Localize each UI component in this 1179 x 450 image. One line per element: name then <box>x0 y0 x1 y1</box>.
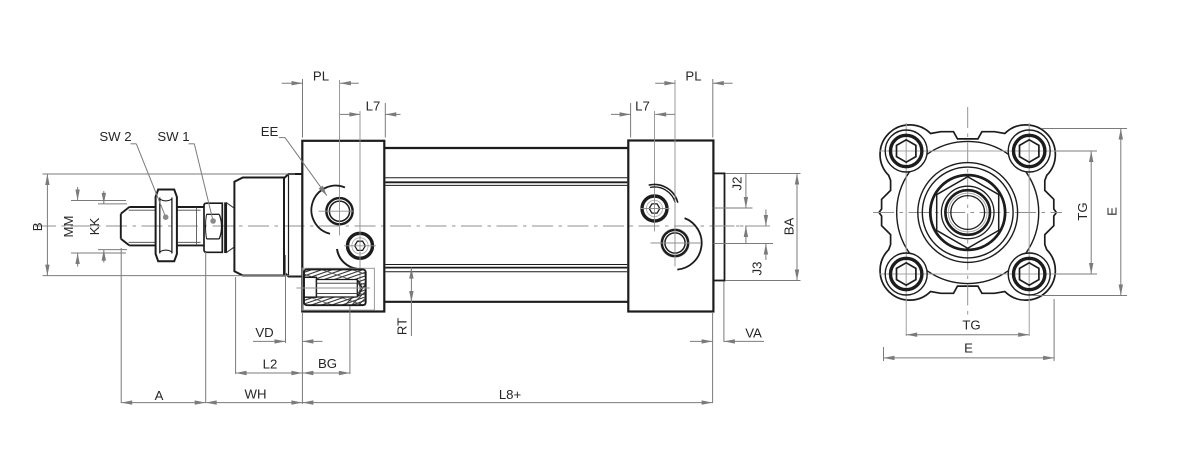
left screw arc <box>337 249 357 269</box>
ext line rod tip <box>120 248 122 403</box>
rod flats SW1 <box>204 203 222 252</box>
svg-text:MM: MM <box>61 216 76 238</box>
svg-text:BG: BG <box>318 356 337 371</box>
right cushion screw ring <box>642 196 667 221</box>
left cushion screw ring <box>348 233 373 258</box>
left port crosshair <box>319 80 354 236</box>
svg-text:TG: TG <box>1075 202 1090 220</box>
ext lines B <box>43 174 296 276</box>
rod circles (end view) <box>941 186 994 239</box>
svg-text:VA: VA <box>745 326 762 341</box>
label SW 1 with leader <box>157 129 215 223</box>
svg-text:L2: L2 <box>263 357 278 372</box>
dimension BA <box>782 174 800 281</box>
dimension PL (left) <box>282 69 359 86</box>
svg-text:B: B <box>30 222 45 231</box>
left port boss arc <box>311 186 345 234</box>
dimension L2 <box>236 357 303 376</box>
ext line rod shoulder <box>205 252 207 403</box>
dimension BG <box>302 356 350 375</box>
dimension WH <box>206 387 303 405</box>
end view cap recess circle arcs <box>897 141 1039 283</box>
dimension L7 (left) <box>340 99 401 117</box>
right screw crosshair <box>640 111 670 232</box>
center boss thick circle <box>930 175 1005 250</box>
ext line rear boss bottom <box>726 280 801 282</box>
ext line left cap face (bottom) <box>301 312 303 404</box>
left cushion screw hex socket <box>355 241 366 250</box>
rear boss extension <box>713 173 724 280</box>
bearing ring flange <box>284 174 302 277</box>
dimension RT <box>395 268 414 336</box>
tie rod bolt center lines <box>879 123 1056 303</box>
dimension TG (bottom) <box>906 318 1029 337</box>
right port gray chamfer circle <box>661 229 690 258</box>
ext line wiper face <box>285 255 287 343</box>
svg-text:A: A <box>155 388 164 403</box>
ext lines MM <box>71 201 126 254</box>
dimension VD <box>253 325 323 344</box>
ext line axis (right) <box>714 225 772 227</box>
svg-text:J3: J3 <box>750 262 765 276</box>
ext line screw center (right) <box>714 207 753 209</box>
dimension E (right) <box>1104 129 1123 296</box>
right port boss arc <box>677 218 701 270</box>
ext lines KK <box>98 204 127 250</box>
left port EE inner circle <box>329 201 349 221</box>
main axis center line (side view) <box>35 225 771 227</box>
right cushion screw hex socket <box>649 204 660 213</box>
tie rod nuts (end view) <box>885 130 1050 295</box>
label EE with leader <box>261 124 327 196</box>
svg-text:J2: J2 <box>730 177 745 191</box>
svg-text:L7: L7 <box>366 99 381 114</box>
svg-text:VD: VD <box>255 325 273 340</box>
dimension A <box>121 388 206 405</box>
left port EE outer circle <box>326 198 352 224</box>
piston rod threaded end MM <box>121 207 204 245</box>
label SW 2 with leader <box>99 129 168 220</box>
end view flange outline <box>879 125 1056 300</box>
dimension J3 <box>750 210 769 276</box>
dimension B <box>30 174 50 276</box>
left cushion screw gray circle <box>352 238 368 254</box>
right port outer circle <box>662 230 688 256</box>
ext line right cap left edge (top) <box>630 103 632 138</box>
front boss <box>234 178 284 276</box>
ext line BG right <box>349 306 351 374</box>
svg-text:WH: WH <box>245 387 267 402</box>
ext line rear ext face (bottom) <box>723 282 725 343</box>
svg-text:E: E <box>1104 207 1119 216</box>
hex nut SW2 <box>156 190 177 262</box>
dimension PL (right) <box>655 69 732 86</box>
ext lines TG bottom <box>906 303 1029 336</box>
right port crosshair <box>651 80 701 267</box>
right cushion screw gray circle <box>646 200 662 216</box>
ext lines TG right <box>1056 151 1097 274</box>
dimension E (bottom) <box>884 341 1055 361</box>
cylinder profile tube <box>384 148 628 302</box>
ext line rear boss top <box>726 173 801 175</box>
center boss outer circles <box>918 163 1018 263</box>
svg-text:L8+: L8+ <box>499 387 522 402</box>
ext line left cap right edge (top) <box>384 103 386 138</box>
dimension KK <box>87 191 106 263</box>
svg-text:KK: KK <box>87 218 102 236</box>
right end cap <box>628 141 713 312</box>
ext line port center (right) <box>714 243 774 245</box>
dimension L7 (right) <box>611 99 675 117</box>
svg-text:RT: RT <box>395 318 410 335</box>
ext line left cap face (top) <box>302 79 304 138</box>
svg-text:SW 2: SW 2 <box>99 129 131 144</box>
svg-text:TG: TG <box>962 318 980 333</box>
svg-text:SW 1: SW 1 <box>157 129 189 144</box>
svg-text:PL: PL <box>313 69 329 84</box>
dimension TG (right) <box>1075 151 1094 274</box>
right screw arcs <box>649 184 678 202</box>
dimension J2 <box>730 174 749 244</box>
svg-text:PL: PL <box>685 69 701 84</box>
rod nut hexagon (end view) <box>937 177 999 249</box>
left end cap <box>302 141 384 312</box>
tie rod thread cutaway section <box>176 263 505 313</box>
left screw crosshair <box>344 111 376 298</box>
dimension L8+ <box>302 387 712 405</box>
right port inner circle <box>665 233 685 253</box>
svg-text:L7: L7 <box>635 99 650 114</box>
end view center lines <box>873 107 1062 316</box>
ext line boss left edge <box>235 277 237 374</box>
ext lines E bottom <box>884 299 1055 361</box>
svg-text:E: E <box>964 341 973 356</box>
dimension VA <box>690 326 764 344</box>
rod collar washer <box>226 202 235 253</box>
dimension MM <box>61 187 80 267</box>
left port EE gray chamfer circle <box>326 197 354 225</box>
ext line right cap face (bottom) <box>712 312 714 403</box>
svg-text:EE: EE <box>261 124 279 139</box>
svg-text:BA: BA <box>782 218 797 236</box>
ext lines E right <box>1031 129 1127 296</box>
ext line right cap right edge (top) <box>712 79 714 138</box>
